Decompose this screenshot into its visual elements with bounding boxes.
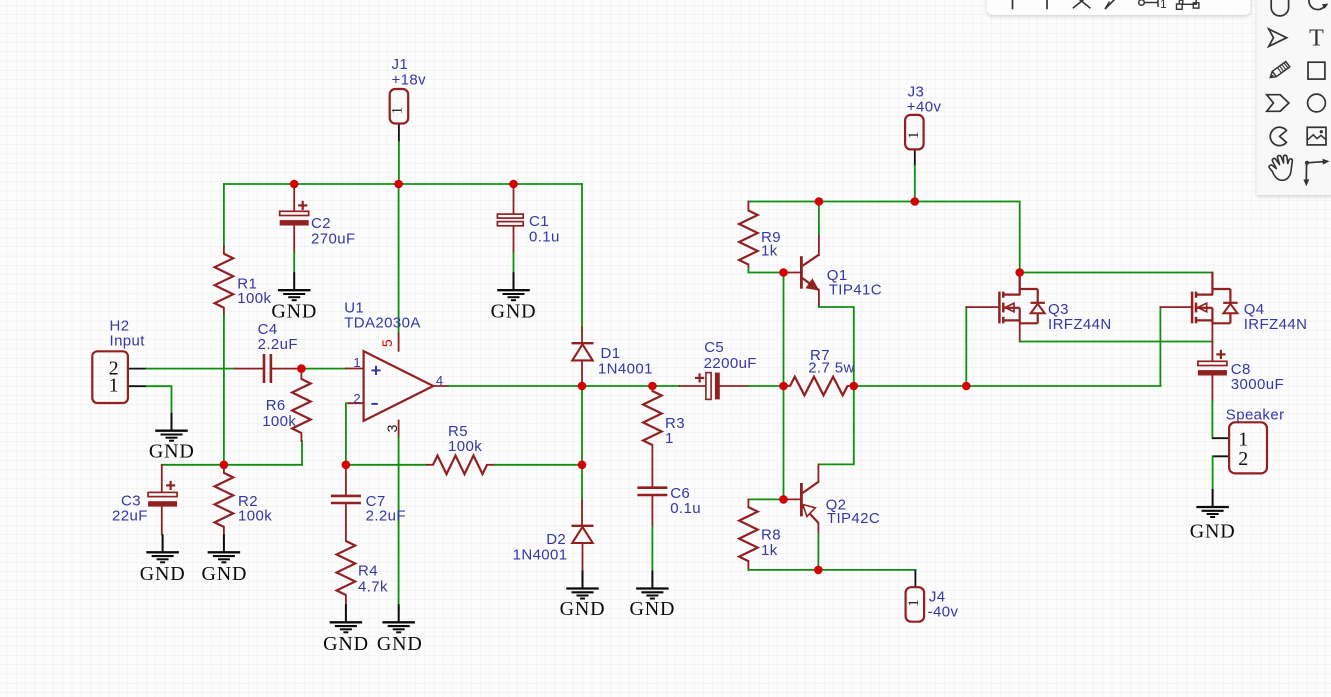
- svg-text:GND: GND: [323, 633, 369, 655]
- wire R5 left lead: [427, 464, 433, 466]
- toolbar icon pie arc: [1270, 127, 1286, 145]
- svg-text:1: 1: [1160, 0, 1167, 11]
- svg-text:GND: GND: [1190, 521, 1236, 543]
- wire pin3 to GND: [398, 437, 400, 604]
- svg-text:C2: C2: [311, 215, 331, 232]
- ground R2: [223, 534, 225, 552]
- svg-text:1N4001: 1N4001: [513, 547, 568, 564]
- svg-text:1N4001: 1N4001: [598, 361, 653, 378]
- svg-text:1: 1: [353, 355, 361, 370]
- resistor R6: [292, 379, 311, 433]
- svg-text:0.1u: 0.1u: [670, 500, 701, 517]
- svg-text:4.7k: 4.7k: [358, 579, 388, 596]
- ground C6: [651, 571, 653, 589]
- svg-text:D1: D1: [601, 345, 621, 362]
- op-amp U1 triangle: [364, 351, 434, 421]
- wire C2 bottom lead: [293, 226, 295, 253]
- capacitor C2: [280, 211, 309, 215]
- wire D2 to ground: [582, 543, 584, 571]
- right toolbar panel: [1257, 0, 1331, 195]
- svg-text:2.2uF: 2.2uF: [366, 508, 406, 525]
- svg-text:D2: D2: [546, 531, 566, 548]
- wire R4 bottom lead: [345, 595, 347, 604]
- wire Q4 drain lead: [1211, 273, 1213, 295]
- op-amp plus input marker: [371, 369, 380, 371]
- svg-text:GND: GND: [140, 563, 186, 585]
- svg-text:TIP42C: TIP42C: [827, 510, 880, 527]
- svg-text:1: 1: [109, 374, 119, 396]
- wire -40V rail: [748, 569, 915, 571]
- wire C5 to R7 node: [748, 385, 783, 387]
- junction dot 14: [815, 197, 824, 206]
- wire output rail: [448, 385, 679, 387]
- svg-text:GND: GND: [377, 633, 423, 655]
- wire speaker pin2 to GND: [1212, 456, 1214, 489]
- svg-text:R6: R6: [266, 397, 286, 414]
- wire pin2 to feedback node: [345, 403, 347, 465]
- junction dot 12: [578, 461, 587, 470]
- junction dot 18: [1015, 268, 1024, 277]
- transistor Q4 MOSFET: [1191, 292, 1194, 324]
- capacitor C5: [706, 373, 711, 400]
- svg-text:IRFZ44N: IRFZ44N: [1048, 316, 1112, 333]
- wire R2 top lead: [223, 465, 225, 473]
- junction dot 9: [779, 382, 788, 391]
- svg-text:3: 3: [384, 424, 400, 432]
- svg-text:GND: GND: [560, 598, 606, 620]
- ground R4: [345, 604, 347, 622]
- svg-text:0.1u: 0.1u: [529, 229, 560, 246]
- connector J4: [906, 587, 925, 622]
- wire Q3 source to C8: [1020, 341, 1213, 343]
- wire D2 anode lead: [581, 501, 583, 526]
- toolbar icon arrow chevron: [1269, 29, 1287, 46]
- svg-text:R8: R8: [761, 526, 781, 543]
- wire output down to D2 node: [581, 386, 583, 465]
- wire J1 pin black: [398, 123, 400, 142]
- svg-text:2.7 5w: 2.7 5w: [808, 359, 855, 376]
- wire Q4 gate riser: [1159, 307, 1161, 386]
- wire R6 bottom to node: [301, 441, 303, 465]
- resistor R4: [337, 541, 356, 595]
- wire C8 bottom lead: [1211, 375, 1213, 401]
- connector H2: [92, 351, 128, 403]
- svg-text:1k: 1k: [761, 242, 778, 259]
- plus sign C3: [166, 484, 175, 486]
- wire R5 right lead: [487, 464, 495, 466]
- wire Q1 emitter to output: [819, 307, 854, 386]
- wire C1 bottom: [513, 226, 515, 253]
- svg-text:GND: GND: [202, 563, 248, 585]
- diode D2: [572, 525, 594, 527]
- wire R2 bottom lead: [223, 527, 225, 534]
- wire R1 top lead: [223, 247, 225, 254]
- toolbar icon bus tool: [1046, 0, 1048, 9]
- wire Q4 gate lead: [1160, 306, 1192, 308]
- wire op-amp pin3 lead: [398, 421, 400, 438]
- svg-text:2: 2: [353, 391, 361, 406]
- ground D2: [582, 571, 584, 589]
- resistor R8: [739, 507, 758, 561]
- svg-text:1: 1: [906, 599, 922, 607]
- toolbar icon delete wire: [1073, 0, 1091, 8]
- toolbar icon pen: [1105, 0, 1118, 9]
- junction dot 13: [779, 268, 788, 277]
- svg-text:GND: GND: [271, 301, 317, 323]
- ground C1: [513, 272, 515, 290]
- svg-text:C5: C5: [704, 339, 724, 356]
- wire C5 right lead: [720, 385, 749, 387]
- toolbar icon ellipse: [1308, 94, 1326, 112]
- wire op-amp pin4 lead: [433, 385, 448, 387]
- wire drain bus to Q4: [1020, 272, 1213, 274]
- junction dot 6: [342, 461, 351, 470]
- junction dot 16: [779, 495, 788, 504]
- resistor R7: [790, 377, 848, 396]
- wire speaker pin1 black: [1212, 437, 1229, 439]
- svg-text:GND: GND: [630, 598, 676, 620]
- plus sign C2: [298, 204, 307, 206]
- svg-text:100k: 100k: [237, 290, 271, 307]
- wire C4 left lead: [235, 368, 263, 370]
- svg-text:1: 1: [665, 430, 674, 447]
- wire R9 bottom lead: [747, 265, 749, 269]
- wire D2 node down: [581, 465, 583, 501]
- capacitor C8: [1198, 361, 1227, 365]
- wire Q1 emitter lead: [818, 290, 820, 307]
- junction dot 7: [578, 382, 587, 391]
- wire Q4 source to C8 top: [1211, 323, 1213, 361]
- resistor R3: [643, 391, 662, 445]
- ground Speaker: [1212, 489, 1214, 507]
- ground C2: [293, 272, 295, 290]
- svg-text:100k: 100k: [238, 508, 272, 525]
- svg-text:GND: GND: [149, 441, 195, 463]
- wire rail right to D1: [581, 184, 583, 328]
- wire Q1 collector lead: [818, 236, 820, 255]
- svg-text:GND: GND: [491, 301, 537, 323]
- svg-text:100k: 100k: [262, 413, 296, 430]
- wire R8 top to base: [748, 498, 783, 500]
- svg-text:3000uF: 3000uF: [1231, 376, 1284, 393]
- wire Q3 gate lead: [966, 306, 999, 308]
- transistor Q1: [800, 256, 803, 289]
- junction dot 10: [850, 382, 859, 391]
- wire R1 bottom lead: [223, 308, 225, 316]
- wire +18V rail: [224, 183, 582, 185]
- toolbar icon image tool: [1307, 127, 1326, 145]
- plus sign C5: [695, 377, 704, 379]
- junction dot 1: [290, 180, 299, 189]
- wire R7 left lead: [784, 385, 791, 387]
- wire rail to C1: [513, 184, 515, 214]
- toolbar icon polygon arrow: [1267, 95, 1289, 112]
- svg-text:22uF: 22uF: [112, 508, 148, 525]
- svg-text:Speaker: Speaker: [1226, 407, 1285, 424]
- wire Q1 base to Q2 base: [783, 273, 785, 500]
- wire C2 to ground: [293, 252, 295, 272]
- junction dot 5: [220, 461, 229, 470]
- wire D1 anode lead: [581, 360, 583, 386]
- wire H2 pin2 black: [128, 368, 147, 370]
- junction dot 2: [394, 180, 403, 189]
- transistor Q2: [800, 483, 803, 516]
- capacitor C7: [331, 495, 361, 498]
- svg-text:IRFZ44N: IRFZ44N: [1244, 316, 1308, 333]
- svg-text:100k: 100k: [448, 438, 482, 455]
- resistor R5: [433, 456, 487, 475]
- junction dot 8: [648, 382, 657, 391]
- svg-text:J1: J1: [392, 56, 409, 73]
- wire R1 bottom to feedback node: [223, 315, 225, 464]
- svg-text:TIP41C: TIP41C: [829, 281, 882, 298]
- svg-text:R4: R4: [358, 563, 378, 580]
- wire R7 right lead: [848, 385, 854, 387]
- svg-text:1: 1: [390, 107, 406, 115]
- svg-text:2200uF: 2200uF: [704, 355, 757, 372]
- capacitor C4: [263, 354, 266, 383]
- plus sign C8: [1216, 353, 1225, 355]
- wire Q3 source lead: [1019, 323, 1021, 341]
- wire J1 to rail: [398, 142, 400, 184]
- svg-text:+40v: +40v: [907, 99, 942, 116]
- wire Q1 collector riser: [818, 202, 820, 237]
- wire R3 top lead: [651, 386, 653, 391]
- toolbar icon rectangle: [1308, 62, 1325, 79]
- junction dot 4: [297, 364, 306, 373]
- connector J1: [390, 89, 409, 124]
- toolbar icon symbol tool: [1177, 4, 1183, 9]
- transistor Q3 MOSFET: [998, 292, 1001, 324]
- wire R5 to output node: [495, 464, 582, 466]
- svg-text:T: T: [1309, 26, 1324, 52]
- svg-text:5: 5: [379, 339, 395, 347]
- ground U1 pin3: [398, 604, 400, 622]
- resistor R2: [215, 473, 234, 527]
- wire op-amp pin2 lead: [348, 402, 364, 404]
- wire op-amp pin5 lead: [398, 334, 400, 351]
- wire C7 top lead: [345, 465, 347, 495]
- toolbar icon pencil: [1270, 62, 1290, 78]
- capacitor C1: [497, 214, 523, 218]
- wire R3 to C6: [651, 445, 653, 487]
- wire node to R5: [346, 464, 427, 466]
- toolbar icon net label: [1139, 0, 1145, 5]
- wire H2 pin1 to GND: [147, 386, 172, 413]
- wire C2 top lead: [293, 184, 295, 211]
- wire H2 pin1 black: [128, 385, 147, 387]
- wire C1 to ground: [513, 252, 515, 272]
- wire output node to MOSFET gates: [854, 385, 1161, 387]
- wire rail to op-amp pin5: [398, 184, 400, 334]
- wire C8 to speaker pin1: [1211, 401, 1213, 438]
- svg-text:C1: C1: [529, 213, 549, 230]
- svg-text:Input: Input: [110, 333, 146, 350]
- wire R9 top lead: [747, 202, 749, 211]
- wire Q2 bottom lead: [817, 523, 819, 534]
- wire C4 to op-amp pin1: [301, 368, 346, 370]
- ground C3: [162, 534, 164, 552]
- svg-text:1k: 1k: [761, 542, 778, 559]
- wire Q3 gate riser: [965, 307, 967, 386]
- junction dot 15: [911, 197, 920, 206]
- wire C3 bottom lead: [161, 506, 163, 534]
- wire feedback node horizontal: [162, 464, 302, 466]
- wire J4 pin black: [914, 570, 916, 587]
- toolbar icon redo arc: [1309, 0, 1325, 10]
- svg-text:2: 2: [1238, 448, 1248, 470]
- capacitor C3: [148, 492, 177, 496]
- wire Q2 top lead: [817, 464, 819, 482]
- connector Speaker: [1229, 422, 1267, 473]
- resistor R1: [215, 254, 234, 308]
- diode D1: [572, 342, 594, 344]
- svg-text:4: 4: [436, 373, 444, 388]
- wire C5 left lead: [680, 385, 706, 387]
- ground H2: [171, 413, 173, 431]
- wire C6 bottom lead: [651, 496, 653, 527]
- wire rail to R1 top: [223, 184, 225, 247]
- wire C6 to ground: [651, 527, 653, 570]
- junction dot 17: [814, 566, 823, 575]
- wire H2 pin2 to C4: [147, 368, 236, 370]
- svg-text:270uF: 270uF: [311, 231, 356, 248]
- op-amp minus input marker: [371, 403, 378, 405]
- wire R8 bottom lead: [747, 561, 749, 570]
- toolbar icon move leader: [1305, 161, 1309, 165]
- wire R6 top lead: [300, 369, 302, 379]
- wire Q1 base lead: [784, 272, 801, 274]
- wire +40V rail: [748, 202, 1019, 273]
- wire speaker pin2 black: [1213, 455, 1230, 457]
- toolbar icon arc: [1271, 0, 1288, 16]
- wire output to Q2 top: [818, 386, 853, 464]
- svg-text:1: 1: [1238, 428, 1248, 450]
- wire C3 top lead: [161, 465, 163, 493]
- svg-text:2.2uF: 2.2uF: [258, 336, 298, 353]
- wire D1 cathode lead: [581, 328, 583, 344]
- wire R8 top lead: [747, 499, 749, 507]
- wire J3 to rail: [914, 166, 916, 202]
- svg-text:TDA2030A: TDA2030A: [344, 314, 421, 331]
- wire J3 pin black: [914, 149, 916, 166]
- wire R6 bottom lead: [300, 433, 302, 441]
- toolbar icon wire tool: [1012, 0, 1014, 9]
- junction dot 11: [962, 382, 971, 391]
- connector J3: [905, 115, 924, 149]
- wire op-amp pin1 lead: [346, 368, 364, 370]
- wire C4 right lead: [272, 368, 301, 370]
- svg-text:1: 1: [906, 131, 922, 139]
- capacitor C6: [637, 486, 667, 489]
- wire R9 to Q1 base: [748, 268, 783, 273]
- wire C7 to R4: [345, 505, 347, 541]
- wire Q2 base lead: [784, 498, 801, 500]
- junction dot 3: [509, 180, 518, 189]
- svg-text:+18v: +18v: [392, 72, 427, 89]
- toolbar icon drag hand: [1269, 155, 1292, 180]
- svg-text:-40v: -40v: [928, 604, 959, 621]
- resistor R9: [739, 211, 758, 265]
- wire Q3 drain lead: [1019, 273, 1021, 295]
- wire Q2 to -40V rail: [817, 534, 819, 570]
